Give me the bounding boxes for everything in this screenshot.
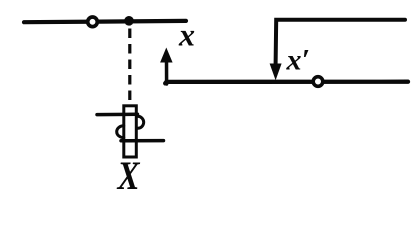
terminal circle on top-left wire xyxy=(88,17,98,27)
component X left side half-circle bump xyxy=(117,126,124,138)
wire top-right horizontal with corner xyxy=(276,20,405,64)
wire bottom horizontal xyxy=(165,82,408,84)
arrowhead of x arrow (up) xyxy=(160,48,173,63)
component X right side half-circle bump xyxy=(138,116,144,128)
terminal circle on bottom wire xyxy=(313,77,323,87)
dashed wire from junction down to component X xyxy=(128,29,131,106)
svg-text:x′: x′ xyxy=(286,44,310,77)
junction dot xyxy=(124,16,134,26)
svg-text:X: X xyxy=(116,153,141,196)
svg-text:x: x xyxy=(178,17,195,53)
wire top-left horizontal xyxy=(24,21,186,22)
arrow x shaft (upward) xyxy=(165,60,169,84)
component X body rectangle xyxy=(124,106,137,157)
wire left lead of component X xyxy=(97,113,138,117)
arrowhead of x' arrow (down) xyxy=(270,64,282,81)
wire right lead of component X xyxy=(121,139,164,143)
